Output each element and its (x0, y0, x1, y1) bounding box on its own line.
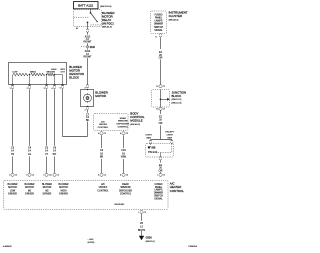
svg-text:OR: OR (159, 169, 163, 172)
splice S100 (81, 46, 86, 48)
svg-text:ON/OFF: ON/OFF (99, 187, 108, 189)
svg-text:CONTROL: CONTROL (97, 190, 109, 192)
wire splice to blower motor (87, 48, 89, 49)
resistor R-low (13, 73, 28, 76)
resistor R-m2 (47, 73, 53, 76)
connector below relay (86, 29, 88, 30)
svg-text:LOW: LOW (12, 71, 18, 73)
svg-text:BK: BK (86, 119, 90, 122)
svg-text:DIMMER: DIMMER (154, 193, 164, 195)
wire cluster to junction block (160, 37, 162, 49)
relay common terminal node (90, 12, 92, 14)
relay switch arm (91, 13, 98, 22)
svg-text:A: A (98, 132, 100, 135)
svg-text:BLOCK: BLOCK (69, 76, 79, 80)
svg-text:MED1: MED1 (30, 71, 37, 73)
svg-text:A/C: A/C (101, 183, 105, 186)
svg-text:(8W-10-14): (8W-10-14) (100, 6, 111, 8)
svg-text:(8W-15-7): (8W-15-7) (146, 241, 156, 243)
svg-text:1: 1 (10, 88, 11, 90)
svg-text:CONTROL: CONTROL (120, 194, 132, 196)
svg-text:C2: C2 (126, 133, 129, 135)
svg-text:BLOWER: BLOWER (25, 184, 35, 186)
svg-text:C7: C7 (163, 109, 166, 111)
svg-text:4: 4 (9, 175, 11, 177)
wire label C3 14 TN (10, 146, 15, 157)
svg-text:DRIVER: DRIVER (43, 194, 52, 196)
svg-text:CONTROL: CONTROL (170, 189, 185, 193)
svg-text:LAMPS: LAMPS (155, 189, 163, 192)
svg-text:(8W-45-2): (8W-45-2) (130, 124, 140, 126)
svg-text:SWITCH: SWITCH (154, 27, 163, 29)
svg-text:EXCEPT: EXCEPT (165, 132, 174, 134)
svg-text:2: 2 (43, 175, 45, 177)
resistor block input pin 5 (61, 85, 63, 86)
wire to a/c heater control (160, 160, 162, 162)
blower motor pin 1 (86, 106, 88, 107)
svg-text:1: 1 (84, 109, 86, 111)
wire label C4 18 BR (99, 148, 104, 159)
wire elbow to resistor block input (63, 136, 88, 138)
resistor block terminals (12, 84, 14, 86)
svg-text:REAR: REAR (120, 117, 126, 120)
svg-text:A: A (98, 174, 100, 177)
svg-text:OR: OR (159, 122, 163, 125)
svg-text:SIGNAL: SIGNAL (154, 29, 163, 32)
svg-text:PANEL: PANEL (155, 16, 163, 19)
wire label C16 18 V/BK (120, 148, 126, 159)
svg-text:(8W-12-3): (8W-12-3) (172, 103, 182, 105)
svg-text:BR: BR (100, 156, 104, 159)
svg-text:BLOWER: BLOWER (8, 184, 18, 186)
svg-text:87: 87 (76, 28, 79, 30)
svg-text:HIGH: HIGH (61, 190, 67, 192)
wire blower high driver (54, 89, 56, 173)
svg-text:OUT: OUT (61, 71, 66, 73)
svg-text:IN: IN (53, 71, 56, 73)
svg-text:2: 2 (27, 88, 28, 90)
svg-text:GROUND: GROUND (114, 204, 124, 206)
wire blower M2 driver (46, 89, 48, 173)
battery feed label BATT A122 (74, 2, 99, 9)
svg-text:BLOCK: BLOCK (172, 94, 182, 98)
svg-text:C1: C1 (32, 175, 35, 177)
svg-text:MOTOR: MOTOR (8, 187, 17, 189)
wire BCM a/c on/off to a/c heater control (101, 135, 103, 173)
svg-text:1: 1 (51, 175, 53, 177)
svg-text:SWITCH: SWITCH (154, 196, 163, 198)
svg-text:PANEL: PANEL (155, 186, 163, 189)
ground wire (141, 214, 143, 221)
svg-text:4: 4 (52, 88, 53, 90)
splice box internal wires (171, 144, 173, 153)
svg-text:A: A (120, 132, 122, 135)
svg-text:3: 3 (26, 175, 28, 177)
blower motor M1 (81, 90, 94, 107)
svg-text:MOTOR: MOTOR (95, 94, 106, 98)
svg-text:M2: M2 (45, 190, 49, 192)
svg-text:C1: C1 (163, 175, 166, 177)
junction block feed arrow (161, 98, 168, 100)
svg-text:(8W-40-2): (8W-40-2) (169, 20, 179, 22)
svg-text:DEFOGGER: DEFOGGER (117, 124, 130, 126)
wire label C5 14 VT (44, 146, 49, 157)
svg-text:DRIVER: DRIVER (25, 194, 34, 196)
svg-text:C1: C1 (15, 175, 18, 177)
wire blower low driver (12, 89, 14, 173)
wire junction block down (160, 110, 162, 114)
svg-text:3: 3 (44, 88, 45, 90)
svg-text:BATT A122: BATT A122 (78, 4, 93, 8)
svg-text:V/BK: V/BK (121, 156, 127, 159)
svg-text:DRIVER: DRIVER (59, 194, 68, 196)
body control module (dashed) (94, 114, 129, 131)
svg-text:MODULE: MODULE (130, 119, 142, 123)
svg-text:S08: S08 (151, 148, 156, 150)
resistor block connector pins (11, 85, 13, 86)
svg-text:MOTOR: MOTOR (25, 187, 34, 189)
svg-text:A/C: A/C (101, 120, 105, 123)
svg-text:SIGNAL: SIGNAL (154, 198, 163, 201)
wire motor to resistor block (87, 110, 89, 113)
svg-text:(8W-42-2): (8W-42-2) (102, 27, 112, 29)
splice S08 box (dashed) (146, 144, 174, 158)
svg-text:BAR: BAR (168, 136, 173, 139)
high-in jumper (55, 74, 63, 76)
junction block node (160, 98, 162, 100)
connector below splice box (159, 157, 161, 158)
relay coil branch (dashed) (74, 16, 89, 18)
relay output terminal 87 node (87, 22, 89, 24)
svg-text:FUSED: FUSED (155, 14, 163, 16)
instrument cluster (dashed) (151, 11, 167, 34)
svg-text:C1: C1 (104, 175, 107, 177)
svg-text:8: 8 (155, 36, 157, 38)
ground G300 (139, 236, 144, 241)
svg-text:S100: S100 (90, 47, 96, 49)
svg-text:DRIVER: DRIVER (8, 194, 17, 196)
svg-text:LIGHT: LIGHT (145, 134, 152, 136)
svg-text:DEFOGGER: DEFOGGER (119, 190, 132, 192)
svg-text:(8-302): (8-302) (88, 242, 95, 244)
svg-text:C1: C1 (144, 212, 147, 214)
svg-text:C1: C1 (104, 133, 107, 135)
svg-text:CLUSTER: CLUSTER (169, 14, 183, 18)
junction block internal wire (160, 89, 162, 107)
svg-text:1: 1 (157, 175, 159, 177)
svg-text:13: 13 (156, 86, 159, 88)
svg-text:OR: OR (159, 57, 163, 60)
connector light bar (149, 140, 151, 141)
svg-text:14: 14 (156, 109, 159, 111)
svg-text:AJ08W42: AJ08W42 (3, 245, 13, 248)
svg-text:M1: M1 (28, 190, 32, 192)
svg-text:WT: WT (53, 153, 57, 156)
svg-text:2: 2 (84, 87, 86, 89)
wire relay 87 down to connector (87, 22, 89, 29)
junction block (dashed) (152, 90, 170, 108)
A/C heater control module (dashed) (4, 181, 169, 210)
svg-text:TN: TN (11, 153, 14, 156)
blower motor resistor block (9, 63, 67, 85)
svg-text:WINDOW: WINDOW (118, 121, 129, 123)
svg-text:C1: C1 (57, 175, 60, 177)
connector except light bar (171, 140, 173, 141)
resistor R-m1 (31, 73, 45, 76)
svg-text:DIMMER: DIMMER (154, 24, 164, 26)
svg-text:A: A (120, 174, 122, 177)
svg-text:BLOWER: BLOWER (42, 184, 52, 186)
splice S08 marker (148, 146, 150, 148)
svg-text:WINDOW: WINDOW (120, 187, 131, 189)
svg-text:CONTROL: CONTROL (117, 127, 128, 129)
svg-text:C2: C2 (126, 175, 129, 177)
svg-text:1: 1 (138, 212, 140, 214)
svg-text:VT: VT (45, 153, 49, 156)
relay pin 30 feed stub (90, 9, 92, 12)
svg-text:CONTROL: CONTROL (98, 127, 109, 129)
svg-text:FUSED: FUSED (155, 184, 163, 186)
svg-text:REAR: REAR (122, 183, 129, 186)
harness split bar (151, 139, 172, 141)
svg-text:LAMPS: LAMPS (155, 20, 163, 23)
svg-text:MOTOR: MOTOR (43, 187, 52, 189)
svg-text:G300: G300 (146, 237, 153, 240)
svg-text:LIGHT: LIGHT (167, 134, 174, 136)
blower motor relay box (dashed, in PDC) (74, 10, 102, 27)
svg-text:5: 5 (60, 88, 61, 90)
wire blower M1 driver (29, 89, 31, 173)
svg-text:LOW: LOW (10, 190, 16, 192)
svg-text:(IN PDC): (IN PDC) (102, 21, 114, 25)
svg-text:MOTOR: MOTOR (59, 187, 68, 189)
svg-text:(8W-12-2): (8W-12-2) (172, 99, 182, 101)
svg-text:CJ8W42A: CJ8W42A (188, 245, 198, 248)
wire BCM defogger to a/c heater control (123, 135, 125, 173)
wire relay to splice (87, 32, 89, 34)
wire label C6 14 WT (52, 146, 57, 157)
resistor chain taps (12, 75, 14, 85)
svg-text:C1: C1 (163, 86, 166, 88)
relay 87A stub (dashed) (91, 24, 102, 26)
wire label C4 14 LG (27, 146, 32, 157)
svg-text:BAR: BAR (146, 136, 151, 139)
svg-text:ON/OFF: ON/OFF (99, 124, 108, 126)
svg-text:• LHD: • LHD (88, 239, 94, 241)
svg-text:BLOWER: BLOWER (59, 184, 69, 186)
svg-text:LG: LG (28, 153, 31, 156)
